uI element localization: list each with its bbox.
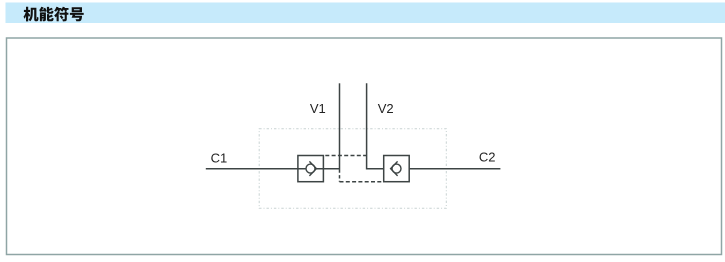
check valve 2 ball	[392, 164, 401, 173]
check valve 1 seat chevron	[309, 161, 316, 176]
svg-text:C2: C2	[479, 150, 496, 165]
wire C2 main line	[409, 168, 500, 170]
title bar	[6, 3, 725, 24]
svg-text:C1: C1	[211, 151, 228, 166]
check valve 1 ball	[306, 164, 315, 173]
check valve 2 seat chevron	[391, 161, 398, 176]
wire V1 vertical line	[339, 83, 341, 169]
dashed enclosure box (valve assembly outline)	[259, 129, 446, 209]
svg-text:V1: V1	[310, 101, 326, 116]
pilot line dashed vertical (from V1 junction down)	[339, 169, 341, 181]
wire C1 main line	[206, 168, 340, 170]
pilot line dashed top (left valve to V2)	[323, 155, 366, 157]
title text 机能符号	[24, 7, 84, 22]
pilot line dashed bottom (to right valve)	[340, 181, 384, 183]
check valve 1 body	[298, 156, 324, 182]
wire V2 vertical line with elbow to right valve	[366, 83, 384, 168]
svg-text:V2: V2	[378, 101, 394, 116]
check valve 2 body	[384, 156, 410, 182]
